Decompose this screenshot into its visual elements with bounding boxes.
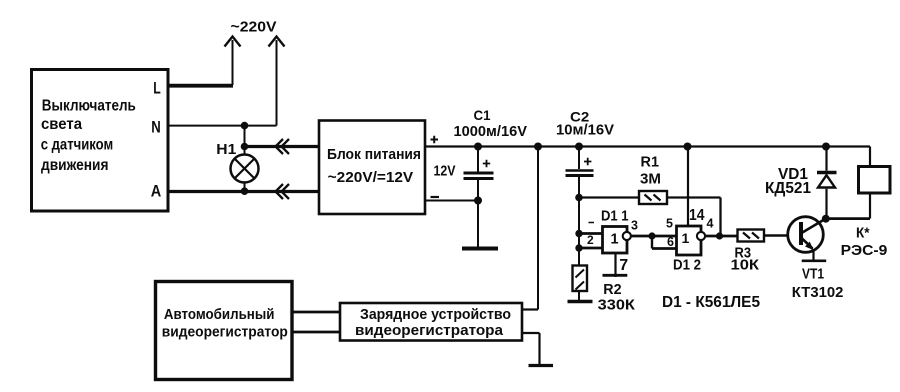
svg-text:R1: R1	[641, 155, 660, 171]
svg-text:H1: H1	[216, 141, 236, 158]
svg-text:12V: 12V	[434, 163, 456, 180]
svg-text:К*: К*	[856, 225, 870, 242]
svg-text:РЭС-9: РЭС-9	[841, 242, 888, 259]
svg-text:VT1: VT1	[802, 265, 824, 282]
svg-text:4: 4	[707, 217, 714, 231]
svg-text:света: света	[41, 116, 82, 133]
svg-text:движения: движения	[41, 157, 109, 174]
svg-text:10м/16V: 10м/16V	[556, 122, 614, 139]
svg-text:D1 2: D1 2	[673, 258, 701, 274]
svg-text:КД521: КД521	[765, 180, 811, 197]
svg-text:10К: 10К	[731, 258, 760, 274]
svg-text:2: 2	[587, 233, 594, 247]
svg-text:N: N	[151, 118, 161, 137]
svg-text:~220V/=12V: ~220V/=12V	[328, 169, 414, 186]
svg-text:14: 14	[689, 207, 705, 224]
svg-text:5: 5	[666, 217, 673, 231]
svg-text:L: L	[153, 79, 161, 98]
svg-text:D1 - К561ЛЕ5: D1 - К561ЛЕ5	[662, 294, 760, 311]
svg-text:видеорегистратор: видеорегистратор	[162, 324, 288, 341]
svg-text:1: 1	[611, 232, 619, 248]
svg-text:Зарядное устройство: Зарядное устройство	[360, 306, 511, 323]
svg-text:Выключатель: Выключатель	[42, 97, 136, 114]
svg-text:Автомобильный: Автомобильный	[164, 306, 275, 323]
svg-text:А: А	[151, 182, 162, 201]
svg-text:7: 7	[619, 257, 628, 274]
svg-text:с датчиком: с датчиком	[41, 136, 114, 153]
svg-text:КТ3102: КТ3102	[792, 284, 844, 301]
svg-text:3М: 3М	[640, 172, 661, 188]
svg-text:6: 6	[667, 235, 674, 249]
svg-text:C1: C1	[474, 108, 491, 123]
svg-text:~220V: ~220V	[231, 19, 277, 36]
svg-text:1000м/16V: 1000м/16V	[454, 123, 528, 140]
svg-text:D1 1: D1 1	[601, 209, 629, 225]
svg-text:Блок питания: Блок питания	[327, 146, 421, 163]
svg-text:330К: 330К	[598, 297, 636, 314]
svg-text:видеорегистратора: видеорегистратора	[355, 322, 504, 339]
svg-text:1: 1	[682, 230, 690, 246]
svg-text:3: 3	[631, 219, 638, 233]
